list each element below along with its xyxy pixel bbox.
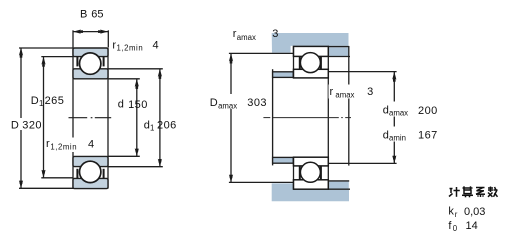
right figure centerline (axis) — [263, 117, 351, 119]
ball (bottom section) — [80, 161, 101, 182]
svg-text:d: d — [144, 119, 150, 131]
groove shoulder marks (top section) — [77, 57, 103, 67]
svg-text:4: 4 — [88, 139, 94, 151]
left figure centerline (axis) — [69, 117, 112, 119]
svg-text:3: 3 — [272, 28, 278, 40]
svg-text:amax: amax — [218, 102, 237, 111]
svg-text:d: d — [383, 130, 389, 142]
inner ring top band — [73, 69, 108, 79]
label damin 167 — [381, 127, 437, 142]
dimension B: dimension line — [73, 30, 108, 47]
dimension D 320: line + extensions — [19, 48, 74, 189]
svg-text:amax: amax — [237, 33, 256, 42]
right ball (bottom) — [300, 162, 320, 182]
glyph xi — [476, 188, 485, 198]
dimension d: arrowheads — [135, 79, 139, 157]
right groove shoulders (top) — [300, 56, 321, 69]
shaft shoulder contact nub (bottom) — [273, 157, 294, 163]
svg-text:303: 303 — [247, 97, 267, 109]
svg-text:1,2min: 1,2min — [117, 44, 144, 53]
svg-text:1,2min: 1,2min — [50, 142, 77, 151]
svg-text:265: 265 — [45, 95, 65, 107]
shaft abutment (bottom blue) — [272, 183, 349, 201]
svg-text:200: 200 — [418, 105, 438, 117]
right bearing outer ring bottom band — [294, 180, 329, 189]
svg-text:D: D — [210, 97, 218, 109]
svg-text:150: 150 — [128, 99, 148, 111]
right ball (top) — [300, 53, 320, 73]
groove shoulder marks (bottom section) — [77, 169, 103, 179]
housing section right of bearing (top) — [328, 47, 349, 56]
dimension d 150: line + extensions — [108, 79, 140, 157]
svg-text:65: 65 — [91, 9, 103, 21]
outer ring bottom band — [73, 178, 108, 188]
svg-text:D: D — [11, 120, 19, 132]
label r12min 4 (bottom) — [45, 138, 94, 153]
dimension B: arrowheads — [73, 30, 108, 34]
right bearing side lines — [294, 46, 329, 189]
ball (top section) — [80, 53, 101, 74]
shaft shoulder face line — [272, 69, 274, 165]
svg-text:0: 0 — [453, 224, 458, 233]
svg-text:r: r — [46, 138, 50, 150]
label Damax 303 — [204, 94, 268, 109]
dimension D: arrowheads — [19, 48, 23, 189]
right bearing outer ring top band — [294, 46, 329, 56]
right bearing inner ring bottom band — [294, 157, 329, 166]
glyph suan — [462, 186, 473, 197]
housing abutment (top blue) — [272, 33, 349, 53]
svg-text:amax: amax — [389, 109, 408, 118]
dimension damax: arrowheads — [392, 72, 396, 164]
label ramax 3 (middle) — [329, 85, 374, 99]
right groove shoulders (bottom) — [300, 166, 321, 180]
svg-text:d: d — [118, 99, 124, 111]
dimension D1: arrowheads — [41, 57, 45, 178]
dimension d1: arrowheads — [158, 69, 162, 167]
glyph ji — [449, 187, 460, 197]
svg-text:320: 320 — [22, 120, 42, 132]
housing end face line — [348, 46, 350, 166]
svg-text:amax: amax — [335, 91, 354, 100]
svg-text:1: 1 — [39, 99, 43, 108]
svg-text:r: r — [330, 86, 334, 98]
inner ring bottom band — [73, 156, 108, 166]
dimension Damax 303: line + extensions — [229, 53, 294, 182]
svg-text:1: 1 — [150, 124, 154, 133]
svg-text:3: 3 — [367, 86, 373, 98]
svg-text:D: D — [31, 95, 39, 107]
svg-text:206: 206 — [157, 120, 177, 132]
right bearing inner ring top band — [294, 69, 329, 78]
svg-text:k: k — [448, 206, 454, 218]
svg-text:B: B — [80, 9, 87, 21]
label damax 200 — [381, 102, 442, 117]
svg-text:d: d — [383, 105, 389, 117]
housing section right of bearing (bottom) — [328, 182, 349, 189]
svg-text:4: 4 — [153, 39, 159, 51]
outer ring top band — [73, 48, 108, 57]
dimension d1 206: line + extensions — [108, 69, 163, 167]
svg-text:0,03: 0,03 — [464, 206, 485, 218]
dimension damax/damin: line + extensions — [328, 72, 396, 164]
dimension Damax: arrowheads — [229, 53, 233, 182]
label D 320 — [10, 118, 43, 130]
svg-text:167: 167 — [418, 130, 438, 142]
svg-text:r: r — [455, 210, 458, 219]
dimension D1 265: line + extensions — [41, 57, 73, 178]
shaft shoulder contact nub (top) — [273, 72, 294, 78]
extension lines at bearing OD (right figure) — [328, 47, 350, 190]
left bearing side lines (bore faces) — [73, 48, 108, 189]
svg-text:amin: amin — [389, 134, 406, 143]
glyph shu — [488, 187, 498, 197]
svg-text:14: 14 — [466, 220, 478, 232]
heading: Chinese characters (drawn strokes) — [449, 186, 498, 197]
